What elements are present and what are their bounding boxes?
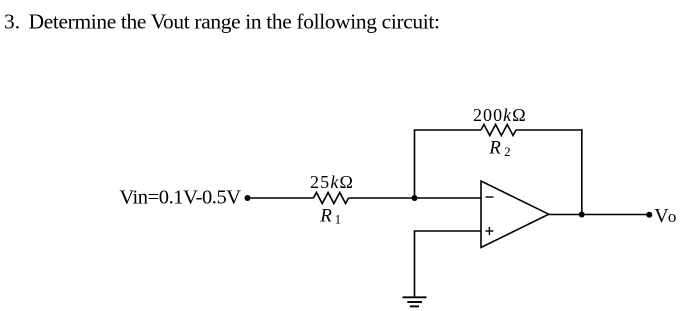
svg-text:Determine the Vout range in th: Determine the Vout range in the followin… (29, 9, 440, 33)
svg-text:R: R (488, 138, 501, 159)
ground (403, 296, 427, 298)
node junction (feedback tap) (412, 195, 418, 201)
svg-text:200kΩ: 200kΩ (473, 105, 527, 125)
svg-text:3.: 3. (4, 9, 20, 33)
svg-text:R: R (319, 205, 332, 226)
wire: R1 to op-amp inverting input (349, 197, 482, 199)
resistor R2 (481, 125, 516, 136)
wire: feedback right vertical (581, 129, 583, 214)
wire: Vin to R1 (248, 197, 314, 199)
node Vin dot (245, 195, 251, 201)
svg-text:25kΩ: 25kΩ (310, 172, 354, 192)
wire: noninverting input to ground drop (414, 230, 481, 232)
wire: op-amp output to Vo (549, 214, 650, 216)
op-amp U1 (481, 181, 549, 248)
wire: ground vertical (414, 231, 416, 298)
svg-text:Vin=0.1V-0.5V: Vin=0.1V-0.5V (119, 186, 241, 208)
svg-text:Vo: Vo (654, 205, 676, 227)
op-amp plus pin symbol (485, 230, 493, 232)
wire: feedback top left segment (414, 129, 481, 131)
svg-text:2: 2 (504, 144, 511, 159)
resistor R1 (314, 193, 349, 204)
node: Vo terminal dot (646, 212, 652, 218)
wire: feedback left vertical (414, 130, 416, 198)
wire: feedback top right segment (516, 129, 583, 131)
op-amp minus pin symbol (486, 196, 494, 198)
svg-text:1: 1 (335, 212, 342, 227)
node: output junction dot (579, 212, 585, 218)
